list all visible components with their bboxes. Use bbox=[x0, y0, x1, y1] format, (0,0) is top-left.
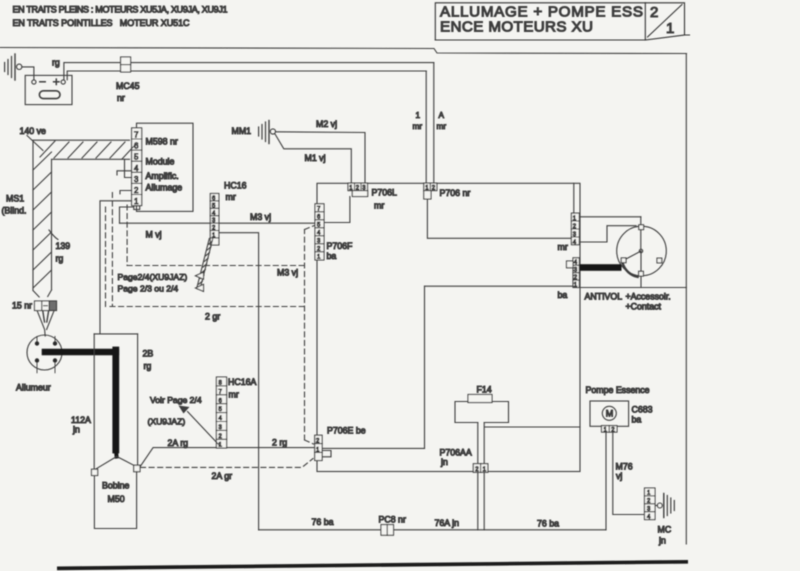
distributor cap cone bbox=[37, 311, 54, 336]
svg-text:1: 1 bbox=[666, 20, 674, 37]
switch key lever to left contact bbox=[626, 251, 641, 259]
svg-text:M3 vj: M3 vj bbox=[250, 212, 271, 222]
wire: M76 vj pump pin2 to MC ground bbox=[613, 432, 645, 514]
svg-text:M3 vj: M3 vj bbox=[277, 268, 298, 278]
connector strip M598 pins 7..1 bbox=[132, 128, 142, 210]
wire: HT fan to coil terminals bbox=[95, 457, 136, 470]
wire: battery plus to top rail (1 mr circuit) bbox=[64, 63, 434, 80]
shield corner stroke bbox=[27, 136, 43, 151]
svg-text:M vj: M vj bbox=[146, 230, 162, 240]
switch contact notch right bbox=[657, 258, 662, 263]
svg-text:7: 7 bbox=[134, 131, 139, 140]
connector MC45 bbox=[121, 57, 131, 72]
wire: HC16 to 76 ba riser bbox=[219, 233, 259, 530]
svg-text:P706F: P706F bbox=[327, 241, 354, 251]
wire: tee to coil terminals bbox=[94, 333, 137, 335]
wire: fuse legs to P706AA bbox=[478, 423, 484, 464]
fuel pump motor circle bbox=[602, 406, 616, 420]
title block border bbox=[435, 3, 689, 40]
switch contact notch top bbox=[639, 225, 644, 230]
svg-text:mr: mr bbox=[437, 122, 447, 131]
svg-text:ENCE MOTEURS XU: ENCE MOTEURS XU bbox=[440, 19, 593, 36]
wire: pin2 hook stub bbox=[120, 191, 132, 194]
svg-text:+Contact: +Contact bbox=[626, 302, 662, 312]
svg-text:ba: ba bbox=[632, 415, 642, 425]
wire: box edge to mr strip bbox=[573, 183, 575, 213]
svg-text:mr: mr bbox=[413, 122, 423, 131]
svg-text:EN TRAITS POINTILLES MOTEUR: EN TRAITS POINTILLES MOTEUR XU51C bbox=[13, 18, 191, 28]
dashed wire: 2A gr (XU51C) bbox=[141, 459, 314, 468]
svg-text:Voir Page 2/4: Voir Page 2/4 bbox=[150, 395, 202, 405]
wire: 112A jn drop to coil left terminal bbox=[93, 334, 95, 469]
svg-text:mr: mr bbox=[226, 192, 236, 202]
svg-text:3: 3 bbox=[134, 175, 139, 184]
connector PC8 bbox=[381, 525, 394, 536]
dashed wire: XU51C drop to P706E / P706F bbox=[305, 226, 315, 445]
svg-text:MC45: MC45 bbox=[116, 81, 140, 91]
svg-text:jn: jn bbox=[658, 536, 666, 546]
wire: P706AA down to 76A jn rail bbox=[478, 472, 484, 530]
connector P706F bbox=[315, 204, 324, 260]
wire: P706 pin1 internal link to mr strip bbox=[427, 199, 571, 238]
svg-text:M1 vj: M1 vj bbox=[305, 153, 326, 163]
wire: pump pin1 to 76 ba rail bbox=[605, 432, 607, 530]
svg-text:Module: Module bbox=[146, 157, 175, 167]
wire: M598 pin1 feed down bbox=[100, 201, 132, 334]
shield funnel to connector bbox=[33, 290, 52, 297]
svg-text:mr: mr bbox=[229, 390, 239, 400]
ignition coil Bobine M50 bbox=[94, 472, 136, 529]
svg-text:2: 2 bbox=[650, 4, 658, 21]
svg-text:2 gr: 2 gr bbox=[205, 312, 220, 322]
fuel pump C683 box bbox=[590, 401, 629, 426]
svg-text:P706E be: P706E be bbox=[327, 426, 366, 436]
svg-text:ba: ba bbox=[558, 290, 568, 300]
wire: M1 vj to P706L pin1 bbox=[275, 134, 352, 184]
svg-text:Page2/4(XU9JAZ): Page2/4(XU9JAZ) bbox=[118, 272, 188, 282]
dashed wire: 2 gr run (XU51C) bbox=[110, 306, 305, 308]
svg-text:mr: mr bbox=[558, 242, 568, 252]
shielded cable MS1 outer wall bbox=[33, 140, 130, 290]
svg-text:2B: 2B bbox=[143, 349, 154, 359]
svg-text:PC8 nr: PC8 nr bbox=[379, 515, 406, 525]
svg-text:1: 1 bbox=[416, 111, 421, 120]
svg-text:A: A bbox=[439, 111, 445, 120]
coil terminal left bbox=[92, 469, 98, 475]
svg-text:MS1: MS1 bbox=[6, 194, 24, 204]
svg-text:76 ba: 76 ba bbox=[312, 517, 334, 527]
svg-text:rg: rg bbox=[56, 254, 64, 264]
svg-text:MC: MC bbox=[658, 525, 672, 535]
svg-text:Bobine: Bobine bbox=[102, 481, 129, 491]
wire: P706L internal link to P706F bbox=[317, 197, 350, 223]
wire: 1 mr drop to P706 pin 1 bbox=[425, 71, 427, 183]
wire: mr pin1 to switch wiper bbox=[579, 216, 641, 218]
svg-text:15 nr: 15 nr bbox=[12, 301, 32, 311]
connector 15 nr bbox=[35, 301, 57, 311]
switch key lever to bottom contact bbox=[640, 251, 642, 271]
svg-text:(XU9JAZ): (XU9JAZ) bbox=[148, 417, 186, 427]
svg-text:HC16: HC16 bbox=[224, 181, 247, 191]
svg-text:2: 2 bbox=[134, 186, 139, 195]
wire: ground to battery minus bbox=[22, 67, 34, 80]
connector MC strip bbox=[645, 488, 656, 520]
svg-text:jn: jn bbox=[440, 457, 448, 467]
ECU main box outline bbox=[317, 183, 580, 471]
svg-text:76 ba: 76 ba bbox=[537, 519, 559, 529]
connector P706L pins 1 2 3 bbox=[348, 183, 368, 196]
svg-text:Pompe Essence: Pompe Essence bbox=[586, 385, 650, 395]
ignition switch rotor circle bbox=[617, 226, 667, 276]
svg-text:P706L: P706L bbox=[372, 188, 398, 198]
voir-page pointer line bbox=[188, 412, 221, 447]
wire: fuse feed to box right edge bbox=[485, 426, 580, 428]
svg-text:P706 nr: P706 nr bbox=[440, 188, 471, 198]
svg-text:C683: C683 bbox=[632, 405, 653, 415]
wire: M2 vj to P706L pin3 bbox=[276, 132, 366, 184]
svg-text:ANTIVOL: ANTIVOL bbox=[585, 292, 623, 302]
ground MM1 bbox=[259, 121, 276, 144]
ba strip side stub bbox=[567, 261, 574, 268]
svg-text:nr: nr bbox=[117, 93, 125, 103]
coil terminal right bbox=[134, 465, 140, 472]
svg-text:M76: M76 bbox=[616, 462, 633, 472]
fuse F14 bbox=[455, 395, 509, 423]
wire: shield drain into pin3 bbox=[125, 159, 132, 177]
inner compartment top edge bbox=[425, 285, 574, 287]
antivol bottom boundary bbox=[580, 287, 686, 289]
svg-text:112A: 112A bbox=[71, 415, 91, 425]
svg-text:Allumage: Allumage bbox=[146, 183, 183, 193]
switch center pivot bbox=[639, 249, 642, 252]
svg-text:2A rg: 2A rg bbox=[168, 438, 189, 448]
wire: right frame rail bbox=[685, 54, 687, 545]
voir-page arrowhead bbox=[179, 406, 190, 414]
wire: pin4 hook stub bbox=[117, 171, 132, 175]
dashed wire: pin hooks down (XU51C) bbox=[106, 193, 128, 307]
connector ba strip (antivol) bbox=[573, 258, 579, 288]
wire: mr pin4 loop to switch top bbox=[579, 226, 636, 242]
callout line to 139 bbox=[49, 230, 58, 240]
switch wiper stem bbox=[640, 217, 642, 250]
svg-text:M: M bbox=[606, 409, 614, 419]
bottom scan edge band bbox=[57, 560, 688, 570]
svg-text:4: 4 bbox=[134, 164, 139, 173]
svg-text:HC16A: HC16A bbox=[228, 377, 256, 387]
svg-text:jn: jn bbox=[72, 425, 80, 435]
svg-text:EN TRAITS PLEINS : MOTEURS XU5: EN TRAITS PLEINS : MOTEURS XU5JA, XU9JA,… bbox=[13, 5, 228, 15]
svg-text:vj: vj bbox=[616, 471, 622, 481]
connector P706E bbox=[315, 435, 322, 460]
wire: 2A rg coil to HC16A bbox=[140, 448, 216, 467]
svg-text:rg: rg bbox=[144, 361, 152, 371]
wire: battery plus second feed (A mr circuit) bbox=[67, 71, 426, 80]
inner compartment left edge bbox=[424, 286, 426, 448]
title block page-number divider bbox=[645, 3, 684, 40]
wire: 2B rg drop to coil right terminal bbox=[137, 334, 139, 465]
battery B1 bbox=[25, 75, 72, 104]
switch contact notch bottom bbox=[639, 271, 644, 276]
svg-text:F14: F14 bbox=[477, 385, 492, 395]
thick HT lead distributor to coil bbox=[45, 350, 117, 457]
svg-text:M598 nr: M598 nr bbox=[146, 137, 178, 147]
thick wire: ba strip to switch bbox=[580, 264, 622, 271]
svg-text:1: 1 bbox=[134, 197, 139, 206]
wire: P706E link into inner compartment bbox=[322, 447, 424, 449]
svg-text:Page 2/3 ou 2/4: Page 2/3 ou 2/4 bbox=[118, 284, 179, 294]
wire: M vj / M3 vj run to P706F bbox=[120, 222, 316, 224]
dashed wire: M3 vj run (XU51C) bbox=[127, 265, 304, 267]
connector HC16A bbox=[216, 377, 226, 448]
wire: A mr drop to P706 pin 2 bbox=[433, 63, 435, 184]
svg-text:M50: M50 bbox=[108, 494, 125, 504]
ground (battery earth) bbox=[5, 54, 22, 80]
svg-text:MM1: MM1 bbox=[232, 126, 252, 136]
wire: 2 rg HC16A to P706E bbox=[227, 447, 315, 449]
connector mr strip (antivol) bbox=[571, 213, 579, 245]
connector HC16 bbox=[210, 194, 219, 246]
svg-text:+Accessoir.: +Accessoir. bbox=[626, 292, 671, 302]
title block bottom edge bbox=[435, 39, 645, 41]
connector pump pins 1 2 bbox=[602, 426, 618, 433]
svg-text:Amplific.: Amplific. bbox=[146, 171, 179, 181]
title block diagonal (page 2/1) bbox=[648, 5, 683, 38]
switch contact notch left bbox=[621, 258, 626, 263]
connector P706AA pins 2 1 bbox=[473, 464, 488, 473]
page arrow 1 bbox=[196, 272, 204, 279]
page arrow 2 bbox=[196, 284, 204, 291]
wire: frame top rail (battery feed line across page) bbox=[0, 48, 687, 54]
svg-text:140 ve: 140 ve bbox=[20, 126, 47, 136]
distributor (Allumeur) body bbox=[27, 335, 62, 373]
svg-text:rg: rg bbox=[52, 58, 60, 68]
svg-text:5: 5 bbox=[134, 153, 139, 162]
bundle pointer HC16 to page arrows bbox=[197, 239, 213, 289]
svg-text:mr: mr bbox=[374, 201, 384, 211]
svg-text:Allumeur: Allumeur bbox=[16, 383, 51, 393]
module M598 (Module Amplific. Allumage) bbox=[137, 123, 194, 211]
shield hatch strokes (horizontal run) bbox=[40, 141, 135, 159]
P706E side hook bbox=[322, 451, 331, 457]
ground MC bbox=[655, 494, 674, 518]
shielded cable MS1 inner wall bbox=[52, 159, 130, 290]
svg-text:2A gr: 2A gr bbox=[212, 471, 233, 481]
wire: switch bottom contact to boundary bbox=[640, 276, 642, 287]
svg-text:P706AA: P706AA bbox=[440, 448, 472, 458]
shield hatch strokes (vertical run) bbox=[33, 152, 52, 288]
bundle hatch bbox=[198, 241, 213, 289]
svg-text:M2 vj: M2 vj bbox=[316, 119, 337, 129]
connector P706 pins 1 2 bbox=[424, 183, 437, 199]
switch travel arc bbox=[623, 264, 638, 277]
svg-text:2 rg: 2 rg bbox=[272, 438, 287, 448]
svg-text:6: 6 bbox=[134, 142, 139, 151]
svg-text:ba: ba bbox=[327, 251, 337, 261]
svg-text:76A jn: 76A jn bbox=[435, 518, 460, 528]
svg-text:(Blind.: (Blind. bbox=[2, 206, 27, 216]
wire: M vj tail from strip bottom bbox=[120, 207, 134, 223]
svg-text:139: 139 bbox=[56, 241, 71, 251]
wire: 76 ba bottom rail bbox=[259, 529, 606, 531]
